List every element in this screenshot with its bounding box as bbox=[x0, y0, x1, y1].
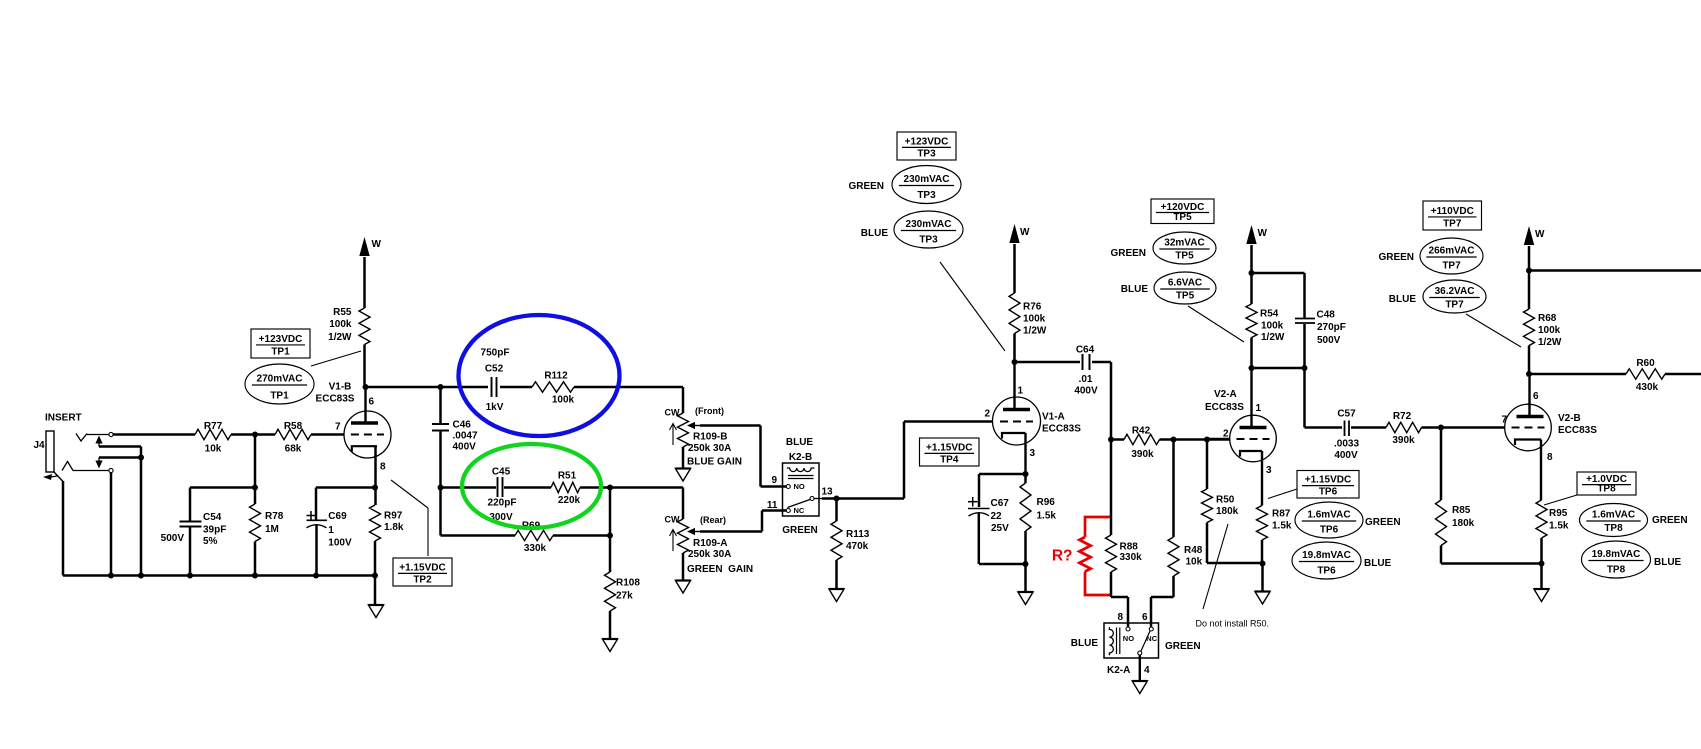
svg-text:R109-B: R109-B bbox=[693, 432, 727, 443]
svg-text:C64: C64 bbox=[1076, 345, 1095, 356]
svg-text:32mVAC: 32mVAC bbox=[1164, 238, 1204, 249]
wire R51 to R109-A pot bbox=[580, 488, 683, 520]
svg-text:7: 7 bbox=[1501, 415, 1507, 426]
svg-text:8: 8 bbox=[1118, 612, 1124, 623]
node V1-B plate junction bbox=[363, 384, 369, 390]
svg-text:R?: R? bbox=[1052, 548, 1073, 565]
svg-text:TP7: TP7 bbox=[1442, 261, 1461, 272]
svg-text:.01: .01 bbox=[1079, 374, 1093, 385]
ground symbol left rail bbox=[368, 576, 383, 618]
testpoint TP7 ellipse 36.2VAC bbox=[1423, 280, 1486, 313]
wire R58 to V1-B grid pin 7 bbox=[311, 422, 345, 435]
svg-text:(Rear): (Rear) bbox=[700, 515, 726, 525]
svg-text:330k: 330k bbox=[524, 543, 547, 554]
svg-text:R50: R50 bbox=[1216, 495, 1235, 506]
svg-text:1/2W: 1/2W bbox=[1261, 332, 1285, 343]
testpoint TP6 ellipse 1.6mVAC GREEN bbox=[1295, 502, 1401, 538]
wire ring to ground rail bbox=[110, 473, 113, 576]
wire top rail to right edge bbox=[1529, 269, 1701, 272]
svg-text:250k 30A: 250k 30A bbox=[688, 443, 731, 454]
testpoint TP6 box +1.15VDC bbox=[1268, 471, 1359, 499]
node R87 bottom junction bbox=[1260, 561, 1266, 567]
svg-text:TP3: TP3 bbox=[917, 149, 936, 160]
svg-text:500V: 500V bbox=[1317, 335, 1341, 346]
resistor R48 10k bbox=[1151, 440, 1203, 627]
svg-text:INSERT: INSERT bbox=[45, 413, 82, 424]
svg-text:5%: 5% bbox=[203, 536, 218, 547]
node R72/R85 junction bbox=[1438, 425, 1444, 431]
relay K2-B bbox=[767, 437, 837, 536]
node jack shunt junction bbox=[138, 455, 144, 461]
ground symbol R109-A bbox=[675, 553, 690, 593]
resistor R51 220k bbox=[551, 471, 581, 507]
svg-text:19.8mVAC: 19.8mVAC bbox=[1302, 550, 1351, 561]
svg-text:36.2VAC: 36.2VAC bbox=[1435, 286, 1475, 297]
svg-text:+1.15VDC: +1.15VDC bbox=[926, 442, 972, 453]
svg-text:(Front): (Front) bbox=[695, 406, 724, 416]
svg-text:11: 11 bbox=[767, 500, 778, 511]
ground symbol R108 bbox=[602, 639, 617, 652]
svg-text:1/2W: 1/2W bbox=[1023, 326, 1047, 337]
node R51 output junction bbox=[607, 485, 613, 491]
testpoint TP7 ellipse 266mVAC bbox=[1420, 238, 1483, 274]
resistor R77 10k bbox=[195, 421, 231, 455]
svg-text:GREEN: GREEN bbox=[1652, 515, 1688, 526]
svg-text:Do not install R50.: Do not install R50. bbox=[1196, 619, 1270, 629]
svg-text:+110VDC: +110VDC bbox=[1431, 206, 1474, 217]
svg-text:6.6VAC: 6.6VAC bbox=[1168, 278, 1202, 289]
capacitor C57 .0033 400V bbox=[1305, 409, 1387, 462]
svg-text:430k: 430k bbox=[1636, 382, 1659, 393]
resistor R50 180k bbox=[1202, 440, 1263, 564]
svg-text:TP7: TP7 bbox=[1443, 219, 1462, 230]
svg-text:W: W bbox=[1258, 228, 1268, 239]
svg-text:R85: R85 bbox=[1452, 505, 1471, 516]
resistor R60 430k output bbox=[1529, 358, 1701, 393]
node relay output 13 junction bbox=[834, 496, 840, 502]
svg-text:C48: C48 bbox=[1317, 310, 1336, 321]
svg-text:9: 9 bbox=[771, 475, 777, 486]
svg-text:C45: C45 bbox=[492, 467, 511, 478]
node R54/C48 top junction bbox=[1249, 270, 1255, 276]
resistor R87 1.5k bbox=[1257, 451, 1292, 564]
ground symbol K2-A bbox=[1132, 681, 1147, 694]
svg-text:W: W bbox=[372, 239, 382, 250]
node C64/R42 junction bbox=[1108, 437, 1114, 443]
svg-text:R55: R55 bbox=[333, 307, 352, 318]
svg-text:R68: R68 bbox=[1538, 313, 1557, 324]
wire grid V2-A bbox=[1207, 438, 1230, 441]
resistor R95 1.5k bbox=[1536, 440, 1569, 564]
svg-text:BLUE: BLUE bbox=[1121, 284, 1149, 295]
annotation red R? highlight bbox=[1052, 517, 1111, 595]
resistor R112 100k bbox=[532, 371, 575, 406]
svg-text:1.8k: 1.8k bbox=[384, 522, 404, 533]
svg-text:180k: 180k bbox=[1216, 506, 1239, 517]
svg-text:230mVAC: 230mVAC bbox=[904, 174, 950, 185]
svg-text:220pF: 220pF bbox=[488, 498, 517, 509]
resistor R108 27k bbox=[605, 536, 641, 640]
testpoint TP2 box +1.15VDC bbox=[391, 480, 452, 586]
svg-text:R58: R58 bbox=[284, 421, 303, 432]
node V2-B supply junction bbox=[1526, 268, 1532, 274]
svg-text:1/2W: 1/2W bbox=[1538, 337, 1562, 348]
svg-text:1: 1 bbox=[328, 525, 334, 536]
svg-text:13: 13 bbox=[821, 487, 833, 498]
resistor R68 100k 1/2W bbox=[1524, 309, 1562, 374]
ground symbol V1-A cathode bbox=[1018, 564, 1033, 605]
svg-text:400V: 400V bbox=[1074, 386, 1098, 397]
svg-text:270mVAC: 270mVAC bbox=[257, 374, 303, 385]
label BLUE TP7 bbox=[1389, 294, 1417, 305]
wire R112 to R109-B pot bbox=[574, 387, 683, 413]
svg-text:39pF: 39pF bbox=[203, 525, 226, 536]
svg-text:3: 3 bbox=[1030, 448, 1036, 459]
potentiometer R109-B 250k BLUE GAIN bbox=[665, 406, 787, 487]
capacitor C54 39pF 5% 500V bbox=[161, 488, 255, 576]
svg-text:CW: CW bbox=[665, 515, 680, 525]
svg-text:400V: 400V bbox=[453, 442, 477, 453]
testpoint TP5 box +120VDC bbox=[1151, 199, 1214, 224]
capacitor C69 1uF 100V bbox=[307, 488, 352, 576]
svg-text:W: W bbox=[1535, 229, 1545, 240]
svg-text:180k: 180k bbox=[1452, 518, 1475, 529]
label BLUE TP5 bbox=[1121, 284, 1149, 295]
svg-text:.0033: .0033 bbox=[1334, 439, 1359, 450]
wire relay K2-A pin 4 to ground bbox=[1140, 655, 1150, 681]
wire C48 junction down to C57 bbox=[1303, 368, 1306, 428]
svg-text:400V: 400V bbox=[1334, 450, 1358, 461]
svg-text:750pF: 750pF bbox=[481, 348, 510, 359]
resistor R96 1.5k bbox=[1020, 474, 1056, 564]
svg-text:GREEN GAIN: GREEN GAIN bbox=[687, 564, 753, 575]
svg-text:C69: C69 bbox=[328, 511, 347, 522]
resistor R113 470k bbox=[831, 499, 870, 590]
testpoint TP1 ellipse 270mVAC bbox=[245, 364, 314, 404]
wire R77 to R58 bbox=[231, 433, 275, 436]
resistor R58 68k bbox=[275, 421, 311, 455]
resistor R72 390k bbox=[1386, 411, 1505, 446]
wire TP7 pointer line bbox=[1466, 314, 1521, 347]
wire TP1 pointer line bbox=[311, 351, 361, 366]
svg-text:R113: R113 bbox=[846, 529, 870, 540]
node V1-A plate junction bbox=[1012, 359, 1018, 365]
svg-text:1.6mVAC: 1.6mVAC bbox=[1307, 510, 1350, 521]
svg-text:GREEN: GREEN bbox=[1110, 248, 1146, 259]
svg-text:R54: R54 bbox=[1260, 309, 1279, 320]
node C46 top junction bbox=[438, 384, 444, 390]
svg-text:R77: R77 bbox=[204, 421, 223, 432]
wire V1-B plate to C52 node bbox=[366, 386, 441, 389]
svg-text:R88: R88 bbox=[1120, 542, 1139, 553]
svg-text:NO: NO bbox=[1123, 634, 1134, 643]
node R96 bottom junction bbox=[1023, 561, 1029, 567]
svg-text:R42: R42 bbox=[1132, 426, 1151, 437]
svg-text:R109-A: R109-A bbox=[693, 538, 727, 549]
node V1-A cathode junction bbox=[1023, 471, 1029, 477]
svg-text:R97: R97 bbox=[384, 511, 403, 522]
svg-text:TP8: TP8 bbox=[1607, 565, 1626, 576]
svg-text:TP3: TP3 bbox=[917, 190, 936, 201]
svg-text:330k: 330k bbox=[1120, 552, 1143, 563]
wire top junction to C48 bbox=[1252, 273, 1305, 318]
capacitor C67 22uF 25V electrolytic bbox=[968, 497, 1026, 564]
svg-text:100V: 100V bbox=[328, 538, 352, 549]
label BLUE TP3 bbox=[861, 228, 889, 239]
svg-text:R72: R72 bbox=[1393, 411, 1412, 422]
node V1-B cathode junction bbox=[372, 485, 378, 491]
op-amp V1-A ECC83S triode bbox=[984, 362, 1081, 459]
svg-text:100k: 100k bbox=[1261, 321, 1284, 332]
svg-text:GREEN: GREEN bbox=[848, 181, 884, 192]
svg-text:R112: R112 bbox=[544, 371, 568, 382]
svg-text:GREEN: GREEN bbox=[782, 525, 818, 536]
relay K2-A bbox=[1071, 612, 1201, 676]
svg-text:GREEN: GREEN bbox=[1365, 517, 1401, 528]
svg-text:BLUE: BLUE bbox=[1654, 557, 1682, 568]
op-amp V2-A ECC83S triode bbox=[1205, 368, 1276, 476]
svg-text:CW: CW bbox=[665, 408, 680, 418]
label GREEN TP7 bbox=[1378, 252, 1414, 263]
svg-text:TP5: TP5 bbox=[1175, 251, 1194, 262]
svg-text:1: 1 bbox=[1256, 403, 1262, 414]
svg-text:100k: 100k bbox=[329, 319, 352, 330]
svg-text:10k: 10k bbox=[205, 444, 222, 455]
testpoint TP3 box +123VDC bbox=[897, 132, 956, 160]
svg-text:TP6: TP6 bbox=[1317, 566, 1336, 577]
svg-text:270pF: 270pF bbox=[1317, 322, 1346, 333]
wire relay 13 to V1-A grid bbox=[837, 422, 993, 499]
wire cathode branch to C69 bbox=[316, 486, 375, 489]
resistor R97 1.8k bbox=[370, 446, 404, 576]
node ground rail junctions bbox=[108, 573, 378, 579]
node C45 line junction bbox=[438, 485, 444, 491]
svg-text:V2-A: V2-A bbox=[1214, 389, 1237, 400]
svg-text:C57: C57 bbox=[1337, 409, 1356, 420]
svg-text:K2-B: K2-B bbox=[789, 452, 812, 463]
node R48 top junction bbox=[1171, 437, 1177, 443]
svg-text:NO: NO bbox=[794, 482, 805, 491]
svg-text:K2-A: K2-A bbox=[1107, 665, 1130, 676]
label GREEN TP3 bbox=[848, 181, 884, 192]
svg-text:+1.15VDC: +1.15VDC bbox=[399, 562, 445, 573]
svg-text:R96: R96 bbox=[1037, 497, 1056, 508]
testpoint TP5 ellipse 6.6VAC bbox=[1154, 272, 1216, 304]
label GREEN TP5 bbox=[1110, 248, 1146, 259]
svg-text:ECC83S: ECC83S bbox=[1558, 425, 1597, 436]
svg-text:1: 1 bbox=[1018, 386, 1024, 397]
node C54 branch junction bbox=[252, 485, 258, 491]
wire ground rail bbox=[63, 574, 375, 577]
wire tip from J4 to R77 bbox=[113, 433, 195, 436]
svg-text:R76: R76 bbox=[1023, 302, 1042, 313]
ground symbol R109-B bbox=[675, 447, 690, 481]
node R77/R58 junction bbox=[252, 432, 258, 438]
annotation blue ellipse highlight bbox=[459, 315, 620, 436]
svg-text:1.5k: 1.5k bbox=[1549, 521, 1569, 532]
svg-text:TP1: TP1 bbox=[270, 391, 289, 402]
resistor R76 100k 1/2W bbox=[1009, 293, 1047, 362]
svg-text:J4: J4 bbox=[34, 440, 46, 451]
svg-text:TP6: TP6 bbox=[1320, 525, 1339, 536]
svg-text:V1-A: V1-A bbox=[1042, 412, 1065, 423]
testpoint TP5 ellipse 32mVAC bbox=[1153, 232, 1216, 264]
svg-text:TP5: TP5 bbox=[1176, 291, 1195, 302]
svg-text:BLUE: BLUE bbox=[1364, 558, 1392, 569]
resistor R55 100k 1/2W plate load bbox=[328, 257, 370, 387]
svg-text:27k: 27k bbox=[616, 591, 633, 602]
testpoint TP3 ellipse 230mVAC BLUE bbox=[894, 211, 963, 248]
svg-text:100k: 100k bbox=[1023, 314, 1046, 325]
svg-text:BLUE GAIN: BLUE GAIN bbox=[687, 457, 742, 468]
svg-text:TP5: TP5 bbox=[1173, 212, 1192, 223]
svg-text:68k: 68k bbox=[285, 444, 302, 455]
svg-text:R87: R87 bbox=[1272, 509, 1291, 520]
svg-text:TP3: TP3 bbox=[919, 235, 938, 246]
J4 tip switch contact bbox=[95, 436, 141, 458]
svg-text:ECC83S: ECC83S bbox=[1205, 402, 1244, 413]
node V2-A plate junction bbox=[1249, 365, 1308, 371]
svg-text:C46: C46 bbox=[453, 420, 472, 431]
svg-text:1.5k: 1.5k bbox=[1037, 511, 1057, 522]
svg-text:19.8mVAC: 19.8mVAC bbox=[1592, 549, 1641, 560]
svg-text:C52: C52 bbox=[485, 364, 504, 375]
svg-text:266mVAC: 266mVAC bbox=[1429, 246, 1475, 257]
testpoint TP8 box +1.0VDC bbox=[1544, 472, 1636, 505]
svg-text:R48: R48 bbox=[1184, 545, 1203, 556]
svg-text:+123VDC: +123VDC bbox=[259, 334, 303, 345]
svg-text:TP8: TP8 bbox=[1597, 484, 1616, 495]
op-amp V2-B ECC83S triode bbox=[1501, 374, 1597, 463]
svg-text:+123VDC: +123VDC bbox=[905, 136, 949, 147]
op-amp V1-B ECC83S triode bbox=[316, 382, 391, 473]
svg-text:220k: 220k bbox=[558, 495, 581, 506]
svg-text:1kV: 1kV bbox=[486, 402, 504, 413]
svg-text:1.6mVAC: 1.6mVAC bbox=[1592, 510, 1635, 521]
testpoint TP8 ellipse 19.8mVAC BLUE bbox=[1582, 541, 1682, 578]
svg-text:TP1: TP1 bbox=[271, 347, 290, 358]
capacitor C64 .01 400V bbox=[1015, 345, 1112, 440]
svg-text:470k: 470k bbox=[846, 541, 869, 552]
svg-text:10k: 10k bbox=[1186, 557, 1203, 568]
connector J4 INSERT jack bbox=[34, 413, 114, 482]
ground symbol R87 bbox=[1255, 564, 1270, 605]
power W supply arrow V1-B bbox=[359, 237, 381, 256]
resistor R88 330k bbox=[1106, 440, 1143, 627]
svg-text:+1.15VDC: +1.15VDC bbox=[1305, 475, 1351, 486]
svg-text:100k: 100k bbox=[1538, 325, 1561, 336]
svg-text:BLUE: BLUE bbox=[861, 228, 889, 239]
svg-text:ECC83S: ECC83S bbox=[316, 394, 355, 405]
svg-text:100k: 100k bbox=[552, 395, 575, 406]
capacitor C48 270pF 500V bbox=[1295, 310, 1346, 369]
svg-text:6: 6 bbox=[1533, 391, 1539, 402]
svg-text:3: 3 bbox=[1266, 465, 1272, 476]
capacitor C45 220pF 300V bbox=[441, 467, 552, 524]
capacitor C52 750pF 1kV bbox=[441, 348, 533, 414]
svg-text:R108: R108 bbox=[616, 578, 640, 589]
svg-text:TP4: TP4 bbox=[940, 455, 959, 466]
svg-text:R78: R78 bbox=[265, 511, 284, 522]
svg-text:25V: 25V bbox=[991, 523, 1009, 534]
power W supply arrow V1-A bbox=[1009, 224, 1030, 293]
svg-text:8: 8 bbox=[380, 462, 386, 473]
annotation green ellipse highlight bbox=[462, 444, 601, 528]
svg-text:6: 6 bbox=[1142, 612, 1148, 623]
resistor R69 330k bbox=[441, 488, 611, 555]
svg-text:230mVAC: 230mVAC bbox=[906, 219, 952, 230]
ground symbol R113 bbox=[829, 589, 844, 602]
node R50 top junction bbox=[1204, 437, 1210, 443]
resistor R54 100k 1/2W bbox=[1246, 304, 1285, 368]
svg-text:250k 30A: 250k 30A bbox=[688, 549, 731, 560]
svg-text:TP2: TP2 bbox=[413, 575, 432, 586]
svg-text:1/2W: 1/2W bbox=[328, 332, 352, 343]
wire TP3 pointer line bbox=[940, 262, 1005, 351]
svg-text:W: W bbox=[1020, 227, 1030, 238]
testpoint TP3 ellipse 230mVAC GREEN bbox=[892, 166, 961, 204]
svg-text:390k: 390k bbox=[1131, 449, 1154, 460]
testpoint TP6 ellipse 19.8mVAC BLUE bbox=[1292, 542, 1392, 579]
testpoint TP1 box +123VDC bbox=[251, 329, 310, 358]
svg-text:ECC83S: ECC83S bbox=[1042, 424, 1081, 435]
svg-text:V2-B: V2-B bbox=[1558, 413, 1581, 424]
svg-text:6: 6 bbox=[369, 397, 375, 408]
svg-text:C54: C54 bbox=[203, 512, 222, 523]
svg-text:BLUE: BLUE bbox=[1389, 294, 1417, 305]
svg-text:500V: 500V bbox=[161, 533, 185, 544]
svg-text:1M: 1M bbox=[265, 524, 279, 535]
node R69 output junction bbox=[607, 533, 613, 539]
svg-text:GREEN: GREEN bbox=[1378, 252, 1414, 263]
svg-text:390k: 390k bbox=[1392, 435, 1415, 446]
resistor R78 1M bbox=[250, 435, 284, 576]
svg-text:C67: C67 bbox=[991, 498, 1010, 509]
svg-text:7: 7 bbox=[335, 422, 341, 433]
resistor R85 180k bbox=[1436, 428, 1542, 564]
svg-text:TP7: TP7 bbox=[1445, 300, 1464, 311]
svg-text:R51: R51 bbox=[558, 471, 577, 482]
power W supply arrow V2-A bbox=[1246, 225, 1267, 304]
ground symbol V2-B cathode bbox=[1534, 564, 1549, 602]
svg-text:2: 2 bbox=[984, 409, 990, 420]
wire TP5 pointer line bbox=[1188, 306, 1244, 342]
capacitor C46 .0047 400V bbox=[432, 387, 478, 488]
testpoint TP7 box +110VDC bbox=[1423, 201, 1482, 230]
wire cathode to C67 branch bbox=[979, 433, 1026, 507]
power W supply arrow V2-B bbox=[1524, 226, 1545, 309]
testpoint TP4 box +1.15VDC bbox=[920, 438, 980, 466]
svg-text:NC: NC bbox=[794, 506, 805, 515]
svg-text:BLUE: BLUE bbox=[786, 437, 814, 448]
svg-text:4: 4 bbox=[1144, 665, 1150, 676]
wire jack shunt to ground rail bbox=[140, 458, 143, 576]
annotation Do not install R50 note bbox=[1196, 524, 1270, 629]
svg-text:R60: R60 bbox=[1636, 358, 1655, 369]
wire sleeve to ground rail bbox=[62, 481, 65, 576]
node V2-B plate junction bbox=[1526, 371, 1532, 377]
svg-text:8: 8 bbox=[1547, 452, 1553, 463]
svg-text:R95: R95 bbox=[1549, 508, 1568, 519]
svg-text:1.5k: 1.5k bbox=[1272, 521, 1292, 532]
J4 ring switch contact bbox=[95, 458, 141, 469]
svg-text:TP8: TP8 bbox=[1604, 523, 1623, 534]
svg-text:BLUE: BLUE bbox=[1071, 638, 1099, 649]
svg-text:22: 22 bbox=[991, 511, 1003, 522]
node R95 bottom junction bbox=[1539, 561, 1545, 567]
potentiometer R109-A 250k GREEN GAIN bbox=[665, 511, 787, 576]
svg-text:TP6: TP6 bbox=[1319, 487, 1338, 498]
